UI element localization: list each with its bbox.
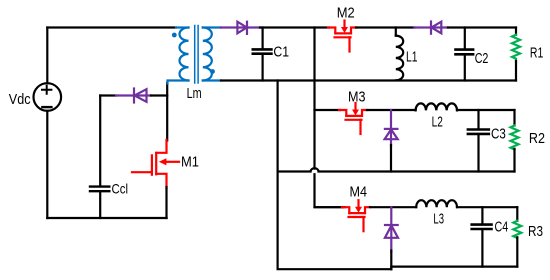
wire D2 to R1 corner: [448, 26, 516, 28]
resistor R2: [511, 126, 519, 150]
svg-text:C3: C3: [491, 125, 506, 142]
wire stage2 top left: [315, 109, 341, 111]
diode D2 stage1: [414, 22, 448, 34]
wire stage2 bottom rail with hop: [278, 168, 515, 171]
capacitor C4 branch bottom: [481, 230, 483, 266]
wire clamp branch top: [99, 96, 101, 186]
wire main bus lower: [315, 174, 343, 207]
diode D5 clamp: [116, 89, 151, 103]
inductor L3: [416, 200, 457, 207]
wire top rail C1 to M2: [260, 26, 329, 28]
wire clamp diode right: [151, 94, 167, 96]
diode D3 stage2 freewheel: [385, 110, 398, 146]
transformer primary winding: [168, 28, 189, 84]
svg-text:M3: M3: [348, 89, 366, 106]
svg-text:M4: M4: [350, 184, 368, 201]
svg-text:Ccl: Ccl: [112, 180, 129, 196]
svg-text:R1: R1: [530, 45, 543, 62]
transformer core: [195, 26, 198, 84]
wire stage3 bottom right rail: [391, 267, 517, 270]
wire L2 to R2 corner: [457, 109, 515, 111]
wire M1 drain: [166, 83, 168, 141]
wire Vdc top lead: [46, 28, 48, 84]
transistor M3: [339, 103, 368, 134]
transformer dot primary: [172, 33, 177, 38]
svg-text:C4: C4: [495, 219, 509, 236]
svg-text:R2: R2: [529, 130, 545, 147]
inductor L1: [396, 28, 403, 81]
wire ground bus: [278, 81, 392, 270]
wire R1 top lead: [515, 28, 517, 35]
wire stage3 top left: [315, 206, 346, 208]
wire clamp branch bottom: [99, 192, 101, 218]
capacitor C4: [472, 225, 492, 229]
wire main bus upper: [313, 28, 315, 169]
resistor R3: [513, 221, 521, 238]
svg-text:M1: M1: [181, 154, 199, 171]
capacitor C1: [253, 49, 272, 53]
resistor R1: [512, 35, 520, 62]
capacitor C2 branch top: [464, 28, 466, 49]
wire D3 bottom: [390, 145, 392, 172]
wire M1 source: [165, 187, 167, 218]
svg-text:L3: L3: [433, 210, 444, 227]
wire R3 top lead: [516, 207, 518, 221]
wire Vdc bottom lead: [46, 111, 48, 218]
svg-text:M2: M2: [337, 4, 355, 21]
diode D4 stage3 freewheel: [385, 207, 398, 251]
wire M3 source to L2: [367, 109, 416, 111]
svg-text:C1: C1: [273, 43, 289, 60]
transformer secondary winding: [203, 28, 221, 81]
wire primary-side bottom rail: [47, 217, 166, 219]
svg-text:Vdc: Vdc: [9, 91, 31, 108]
svg-text:R3: R3: [528, 223, 543, 240]
transformer dot secondary: [210, 69, 215, 74]
transistor M2: [328, 21, 357, 52]
wire L3 to R3 corner: [457, 206, 517, 208]
capacitor C3: [468, 130, 489, 134]
inductor L2: [416, 103, 457, 110]
wire top-left rail: [47, 26, 176, 28]
wire R3 bottom lead: [516, 237, 518, 266]
svg-text:Lm: Lm: [187, 85, 202, 102]
wire D4 bottom: [390, 251, 392, 270]
wire M2 source to L1: [356, 26, 414, 28]
capacitor C2 branch bottom: [464, 56, 466, 81]
wire R1 bottom lead: [515, 61, 517, 81]
capacitor C2: [456, 50, 474, 55]
wire M4 source to L3: [370, 206, 416, 208]
wire clamp diode left: [100, 94, 116, 96]
capacitor C3 branch top: [477, 110, 479, 128]
svg-text:L1: L1: [406, 48, 418, 65]
capacitor Ccl: [90, 187, 109, 192]
capacitor C4 branch top: [481, 207, 483, 223]
capacitor C3 branch bottom: [477, 135, 479, 171]
transistor M1: [132, 140, 179, 188]
transistor M4: [342, 200, 371, 231]
wire secondary bottom rail: [221, 79, 516, 81]
voltage source Vdc: [34, 83, 62, 111]
wire R2 top lead: [513, 110, 515, 126]
svg-text:C2: C2: [475, 50, 489, 67]
capacitor C1 branch top: [262, 28, 264, 49]
diode D1 secondary rectifier: [221, 22, 260, 34]
capacitor C1 branch bottom: [262, 55, 264, 81]
svg-text:L2: L2: [432, 114, 443, 131]
wire R2 bottom lead: [513, 149, 515, 172]
